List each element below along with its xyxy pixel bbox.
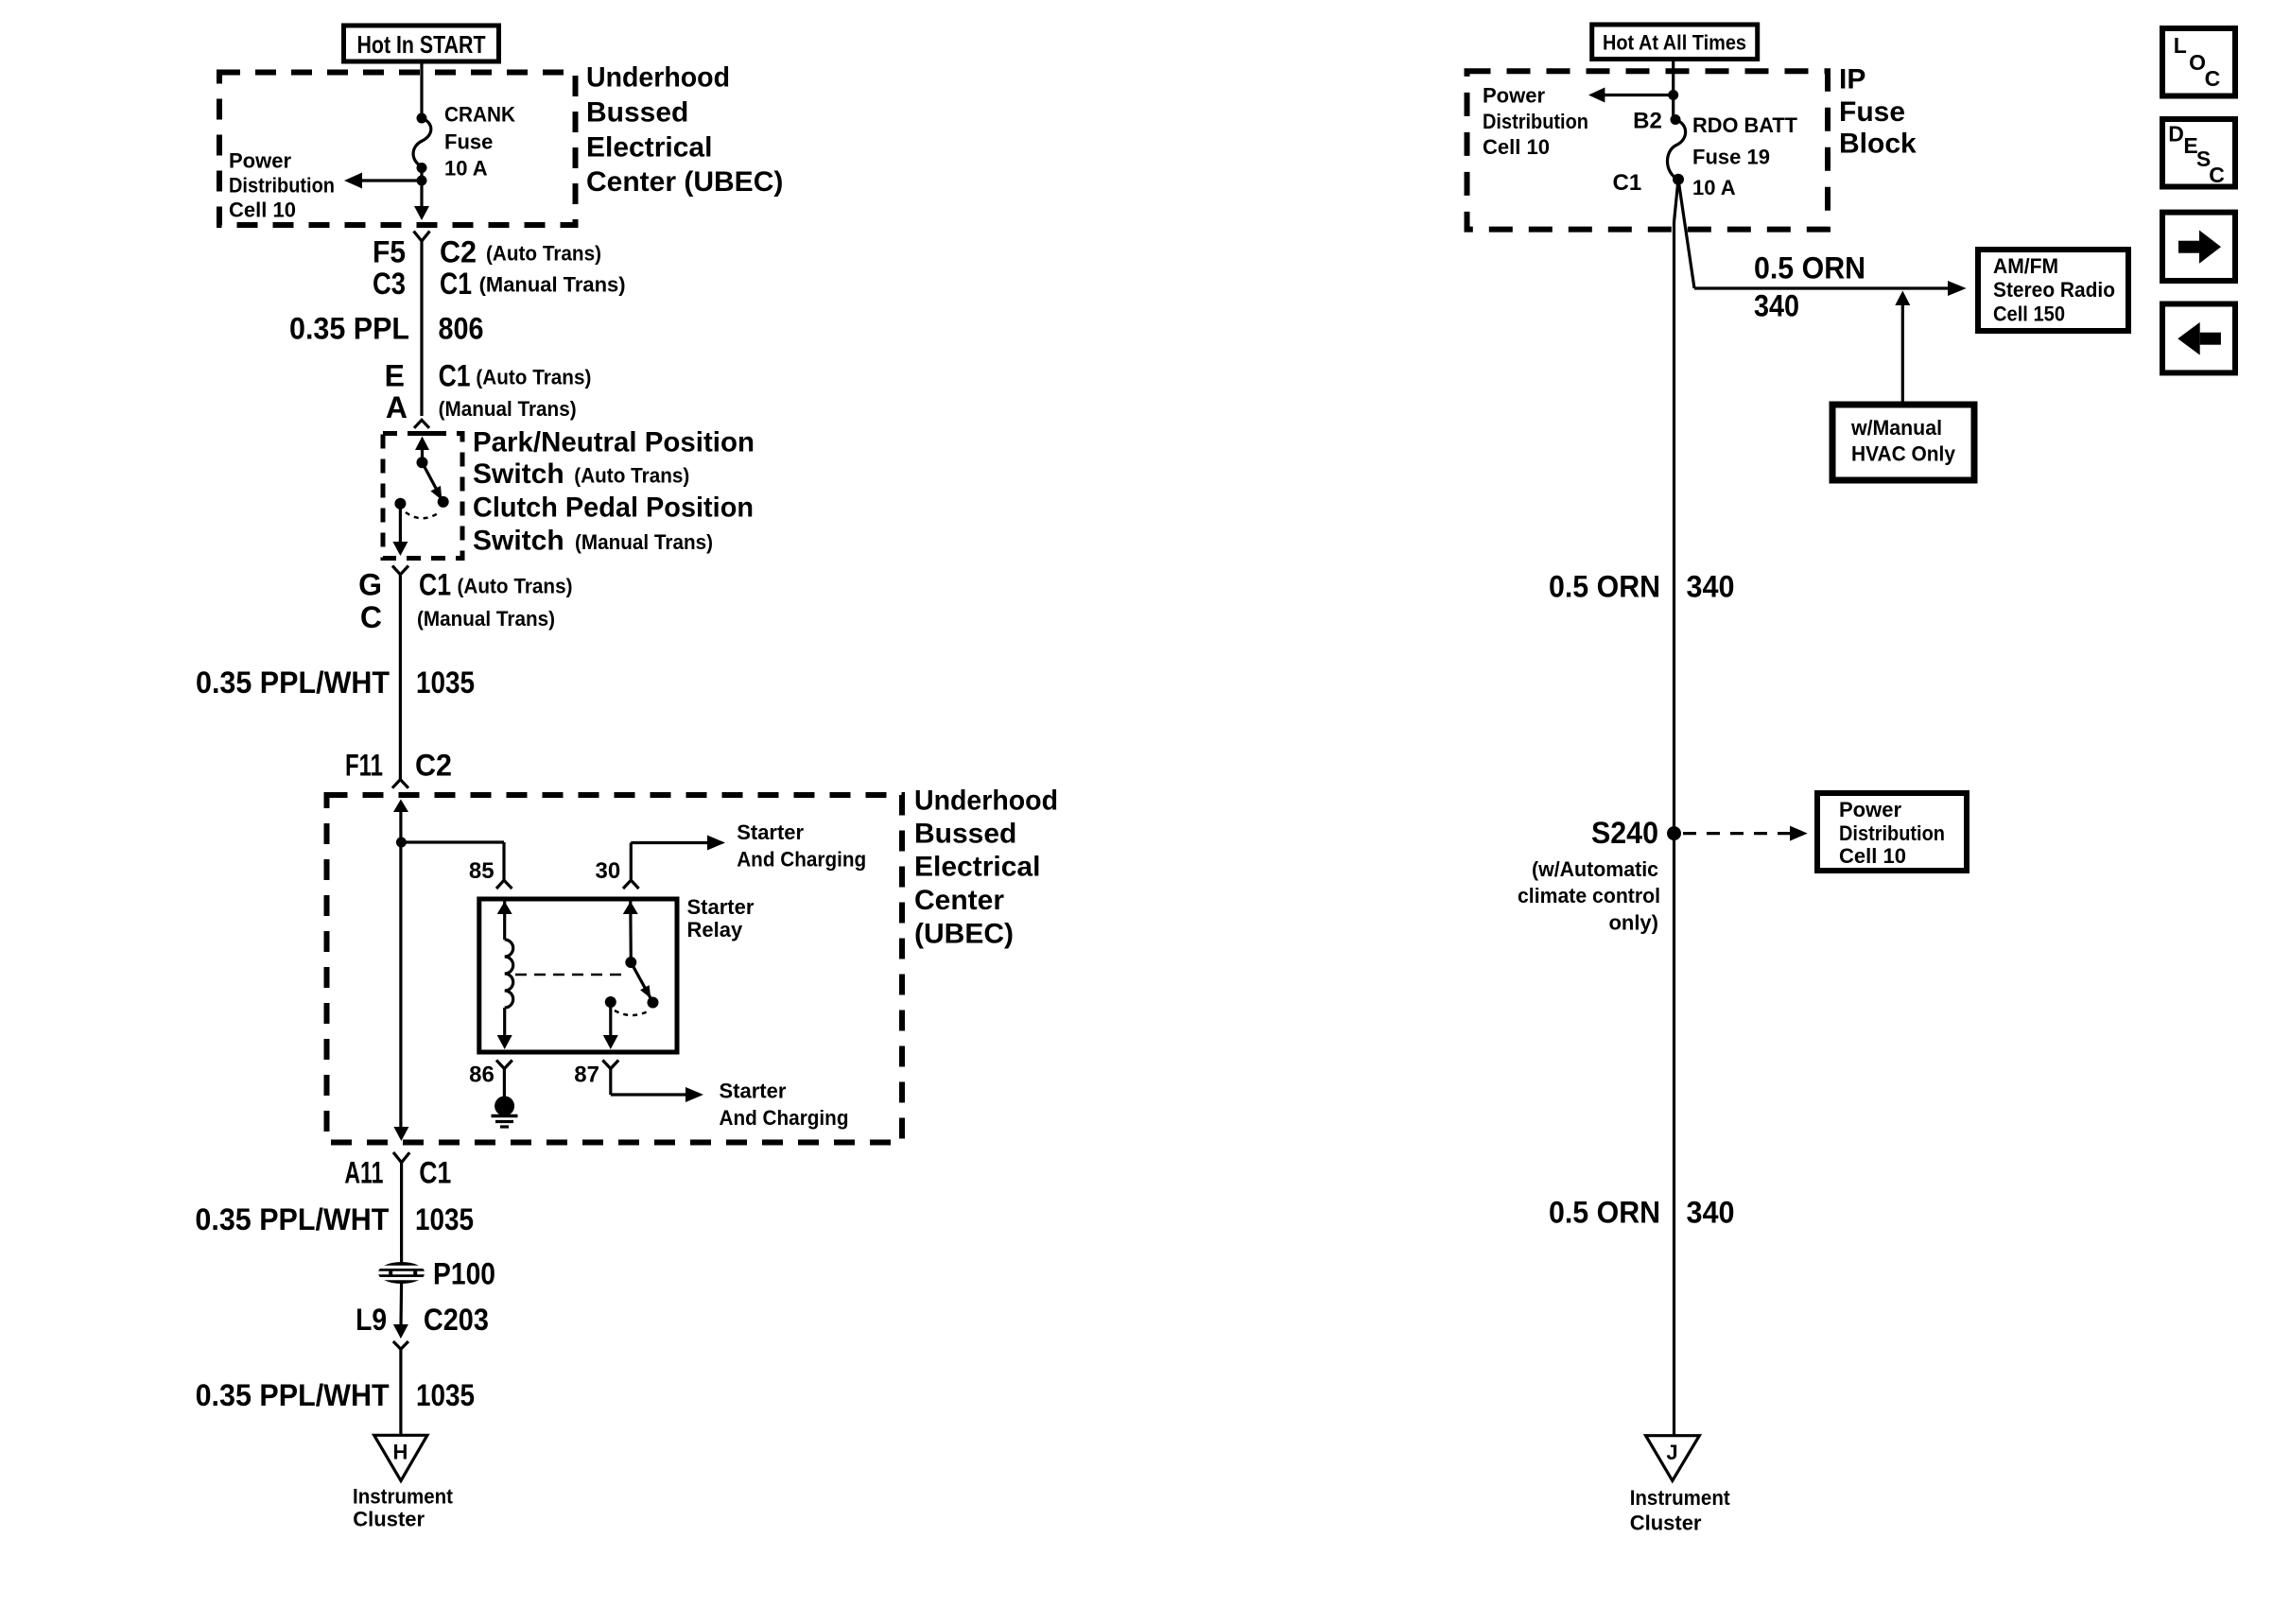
svg-text:Switch: Switch	[473, 526, 564, 557]
UBEC2 title text	[914, 786, 1058, 950]
svg-text:IP: IP	[1839, 64, 1865, 95]
Park/Neutral Position Switch dashed box	[383, 434, 462, 559]
svg-text:Starter: Starter	[737, 821, 804, 844]
svg-text:C1: C1	[419, 568, 451, 602]
switch pivot dot	[417, 457, 428, 468]
svg-text:0.5 ORN: 0.5 ORN	[1754, 251, 1865, 285]
pin label row A11 / C1	[344, 1156, 451, 1190]
main wire down right column	[1674, 180, 1679, 222]
switch contact dot right	[438, 496, 449, 508]
connector flare below UBEC (F5/C2)	[414, 232, 430, 242]
svg-text:Electrical: Electrical	[586, 131, 712, 163]
svg-text:A: A	[386, 390, 408, 424]
arrow from w/Manual HVAC Only	[1901, 305, 1904, 406]
svg-text:0.35 PPL/WHT: 0.35 PPL/WHT	[195, 1202, 389, 1236]
branch wire to relay pin 85	[401, 840, 504, 843]
IP Fuse Block dashed box	[1467, 71, 1829, 229]
svg-text:Park/Neutral Position: Park/Neutral Position	[473, 427, 755, 458]
svg-text:C: C	[2205, 66, 2221, 91]
svg-text:10 A: 10 A	[1692, 176, 1736, 199]
svg-text:HVAC Only: HVAC Only	[1851, 442, 1956, 466]
svg-text:C: C	[2209, 163, 2225, 187]
svg-text:0.5 ORN: 0.5 ORN	[1549, 1196, 1660, 1230]
IP Fuse Block title	[1839, 64, 1917, 160]
relay box Starter Relay	[479, 899, 677, 1052]
svg-text:(Auto Trans): (Auto Trans)	[458, 575, 573, 598]
svg-text:0.35 PPL/WHT: 0.35 PPL/WHT	[196, 1378, 390, 1412]
previous arrow button	[2162, 304, 2235, 373]
relay pin 87 contact dot	[605, 996, 616, 1008]
wire label 0.35 PPL/WHT 1035 bottom	[196, 1378, 475, 1412]
fuse CRANK 10A	[413, 103, 515, 181]
wire to instrument cluster H	[399, 1349, 402, 1435]
wire label 0.35 PPL/WHT 1035	[195, 1202, 474, 1236]
svg-text:1035: 1035	[416, 1378, 475, 1412]
svg-text:A11: A11	[344, 1156, 383, 1190]
svg-text:0.35 PPL/WHT: 0.35 PPL/WHT	[196, 665, 390, 700]
svg-text:Fuse: Fuse	[1839, 96, 1905, 128]
pin label row E / C1 (Auto Trans)	[385, 359, 592, 393]
svg-text:87: 87	[574, 1063, 599, 1088]
svg-text:10 A: 10 A	[444, 157, 488, 181]
Instrument Cluster label right	[1630, 1486, 1731, 1535]
wire into IP fuse block	[1672, 60, 1674, 120]
arrowhead down at UBEC box bottom	[414, 206, 429, 220]
svg-text:Electrical: Electrical	[914, 852, 1040, 883]
relay switch contact from pin 30	[623, 902, 659, 1009]
pin label row C3 / C1 (Manual Trans)	[373, 267, 626, 301]
svg-text:Power: Power	[1839, 798, 1901, 821]
arrow to Power Distribution Cell 10	[229, 149, 422, 222]
pin label row A (Manual Trans)	[386, 390, 577, 424]
svg-text:Power: Power	[1483, 84, 1545, 108]
node Hot In START label box	[344, 26, 499, 61]
wire down to switch	[420, 241, 423, 416]
wire P100 to C203	[399, 1283, 403, 1334]
switch top terminal bar	[409, 431, 434, 436]
svg-text:C1: C1	[440, 267, 472, 301]
svg-text:806: 806	[439, 311, 484, 345]
arrow to Power Distribution Cell 10	[1483, 84, 1674, 160]
wire label 0.35 PPL/WHT 1035	[196, 665, 475, 700]
relay dashed contact arc	[615, 1011, 650, 1015]
svg-text:O: O	[2189, 50, 2206, 75]
svg-text:C1: C1	[1613, 170, 1642, 196]
svg-text:climate control: climate control	[1518, 884, 1660, 907]
AM/FM Stereo Radio box	[1978, 250, 2128, 331]
wire label 0.5 ORN 340 mid	[1549, 570, 1735, 604]
off-page connector J triangle	[1646, 1436, 1700, 1481]
svg-text:Distribution: Distribution	[1839, 821, 1945, 845]
junction node dot	[1668, 90, 1678, 100]
svg-text:C: C	[360, 600, 382, 634]
pin label row F11 / C2	[345, 749, 452, 783]
LOC button	[2162, 28, 2235, 96]
relay actuation dashed line	[515, 974, 624, 976]
switch arrow up to bar	[415, 437, 429, 451]
ground G103	[492, 1097, 518, 1128]
switch blade	[423, 462, 443, 502]
S240 annotation	[1518, 857, 1660, 935]
connector flare above switch box	[414, 420, 429, 428]
svg-text:C1: C1	[419, 1156, 451, 1190]
svg-text:only): only)	[1608, 911, 1658, 935]
UBEC2 dashed box	[327, 795, 903, 1143]
svg-text:(Auto Trans): (Auto Trans)	[486, 242, 601, 266]
pin 85 flare	[496, 880, 512, 889]
svg-text:Instrument: Instrument	[1630, 1486, 1731, 1510]
svg-text:(Manual Trans): (Manual Trans)	[479, 273, 626, 297]
svg-text:Center (UBEC): Center (UBEC)	[586, 166, 783, 198]
svg-text:85: 85	[469, 858, 495, 884]
wire pin30 up and to Starter And Charging	[630, 843, 633, 881]
svg-text:w/Manual: w/Manual	[1850, 416, 1942, 440]
dashed arrow to Power Distribution	[1683, 832, 1790, 835]
pin label row F5 / C2 (Auto Trans)	[373, 235, 601, 269]
switch title text	[473, 427, 755, 557]
svg-text:(Auto Trans): (Auto Trans)	[574, 464, 689, 488]
relay coil	[497, 902, 513, 1050]
pin 30 flare	[623, 880, 639, 889]
pin 87 flare below relay	[602, 1061, 618, 1069]
svg-text:30: 30	[595, 858, 620, 884]
wire from Hot In START into UBEC	[420, 61, 423, 118]
svg-text:Distribution: Distribution	[1483, 110, 1588, 133]
svg-text:Block: Block	[1839, 129, 1917, 160]
UBEC title text	[586, 62, 783, 198]
Instrument Cluster label left	[353, 1484, 454, 1530]
wire pin 87 to Starter And Charging	[609, 1069, 612, 1096]
DESC button	[2162, 119, 2235, 187]
wire down to P100	[400, 1163, 403, 1264]
svg-text:And Charging: And Charging	[737, 848, 866, 872]
svg-text:Switch: Switch	[473, 458, 564, 490]
svg-text:Relay: Relay	[687, 918, 743, 942]
svg-text:B2: B2	[1633, 109, 1662, 134]
svg-text:CRANK: CRANK	[444, 103, 515, 127]
svg-text:Instrument: Instrument	[353, 1484, 454, 1508]
svg-text:Fuse: Fuse	[444, 130, 493, 154]
svg-text:Cluster: Cluster	[1630, 1512, 1702, 1535]
splice S240	[1591, 816, 1681, 850]
pin label row G / C1 (Auto Trans)	[358, 568, 572, 602]
svg-text:RDO BATT: RDO BATT	[1692, 113, 1798, 137]
connector C203 arrow and flare	[393, 1324, 408, 1339]
svg-text:F11: F11	[345, 749, 383, 783]
svg-text:Cell 150: Cell 150	[1993, 302, 2065, 326]
svg-text:(Manual Trans): (Manual Trans)	[439, 397, 577, 421]
svg-text:J: J	[1666, 1441, 1677, 1464]
svg-text:Hot In START: Hot In START	[357, 30, 486, 59]
junction node dot inside UBEC2	[396, 838, 407, 848]
svg-text:(w/Automatic: (w/Automatic	[1532, 857, 1658, 881]
svg-text:Power: Power	[229, 149, 291, 173]
svg-text:Cell 10: Cell 10	[1839, 844, 1906, 868]
next arrow button	[2162, 213, 2235, 281]
svg-text:340: 340	[1687, 570, 1735, 604]
svg-text:P100: P100	[433, 1257, 495, 1291]
svg-text:C1: C1	[439, 359, 471, 393]
node Hot At All Times label box	[1592, 25, 1758, 60]
svg-text:L9: L9	[356, 1303, 387, 1337]
svg-text:E: E	[385, 359, 405, 393]
wire fuse to junction	[420, 166, 423, 216]
wire down to UBEC2	[399, 575, 402, 780]
Power Distribution Cell 10 box	[1817, 793, 1967, 871]
svg-text:Starter: Starter	[720, 1080, 787, 1103]
UBEC dashed box (Underhood Bussed Electrical Center)	[219, 73, 576, 226]
svg-text:340: 340	[1754, 289, 1799, 323]
junction node dot	[417, 176, 427, 186]
svg-text:Stereo Radio: Stereo Radio	[1993, 278, 2115, 302]
pin label row L9 / C203	[356, 1303, 489, 1337]
wire entering UBEC2 with up arrow	[393, 800, 408, 813]
dashed arc between contacts	[406, 512, 438, 518]
svg-text:And Charging: And Charging	[720, 1106, 849, 1130]
svg-text:G: G	[358, 568, 382, 602]
svg-text:Clutch Pedal Position: Clutch Pedal Position	[473, 492, 754, 524]
svg-text:L: L	[2174, 33, 2187, 58]
svg-text:86: 86	[469, 1063, 495, 1088]
svg-text:Fuse 19: Fuse 19	[1692, 145, 1770, 168]
connector flare below switch box	[392, 566, 408, 575]
svg-text:340: 340	[1687, 1196, 1735, 1230]
fuse RDO BATT Fuse 19 10A	[1613, 109, 1798, 199]
branch diagonal to radio feed	[1678, 180, 1694, 288]
svg-text:(UBEC): (UBEC)	[914, 918, 1014, 949]
arrowhead down at UBEC2 bottom	[393, 1127, 408, 1141]
svg-text:1035: 1035	[415, 1202, 474, 1236]
wire down from left contact	[399, 504, 402, 545]
svg-text:D: D	[2168, 121, 2184, 146]
svg-text:Bussed: Bussed	[586, 97, 688, 129]
pin 86 flare below relay	[496, 1061, 512, 1069]
svg-text:C2: C2	[440, 235, 477, 269]
svg-text:Underhood: Underhood	[586, 62, 730, 94]
svg-text:F5: F5	[373, 235, 406, 269]
svg-text:(Manual Trans): (Manual Trans)	[575, 530, 713, 554]
svg-text:Hot At All Times: Hot At All Times	[1603, 31, 1746, 55]
svg-text:Cell 10: Cell 10	[1483, 135, 1550, 159]
Starter And Charging label top	[737, 821, 866, 872]
svg-text:(Auto Trans): (Auto Trans)	[476, 366, 591, 389]
svg-text:S240: S240	[1591, 816, 1658, 850]
switch contact dot left	[394, 498, 406, 510]
svg-text:Cluster: Cluster	[353, 1508, 425, 1531]
svg-text:Starter: Starter	[687, 895, 755, 919]
w/Manual HVAC Only box	[1832, 405, 1974, 480]
wire pin 87 down	[609, 1002, 612, 1037]
Starter And Charging label bottom	[720, 1080, 849, 1131]
grommet P100	[374, 1257, 495, 1291]
svg-text:C3: C3	[373, 267, 406, 301]
svg-text:Underhood: Underhood	[914, 786, 1058, 817]
svg-text:0.5 ORN: 0.5 ORN	[1549, 570, 1660, 604]
svg-text:Center: Center	[914, 885, 1004, 916]
off-page connector H triangle	[374, 1435, 427, 1480]
svg-text:C2: C2	[415, 749, 452, 783]
svg-text:AM/FM: AM/FM	[1993, 254, 2058, 278]
wire label 0.35 PPL 806	[289, 311, 484, 345]
svg-text:H: H	[393, 1441, 408, 1464]
connector flare below UBEC2 (A11/C1)	[393, 1152, 409, 1163]
svg-text:(Manual Trans): (Manual Trans)	[417, 607, 555, 631]
connector flare at wire end above UBEC2	[392, 780, 408, 788]
svg-text:Distribution: Distribution	[229, 174, 335, 198]
svg-text:Bussed: Bussed	[914, 819, 1016, 850]
wire 0.5 ORN 340 to radio	[1694, 286, 1948, 289]
svg-text:1035: 1035	[416, 665, 475, 700]
wire to ground	[503, 1069, 506, 1098]
svg-text:C203: C203	[424, 1303, 489, 1337]
wire label 0.5 ORN 340 lower	[1549, 1196, 1735, 1230]
svg-text:0.35 PPL: 0.35 PPL	[289, 311, 409, 345]
pin label row C (Manual Trans)	[360, 600, 555, 634]
svg-text:Cell 10: Cell 10	[229, 199, 296, 222]
